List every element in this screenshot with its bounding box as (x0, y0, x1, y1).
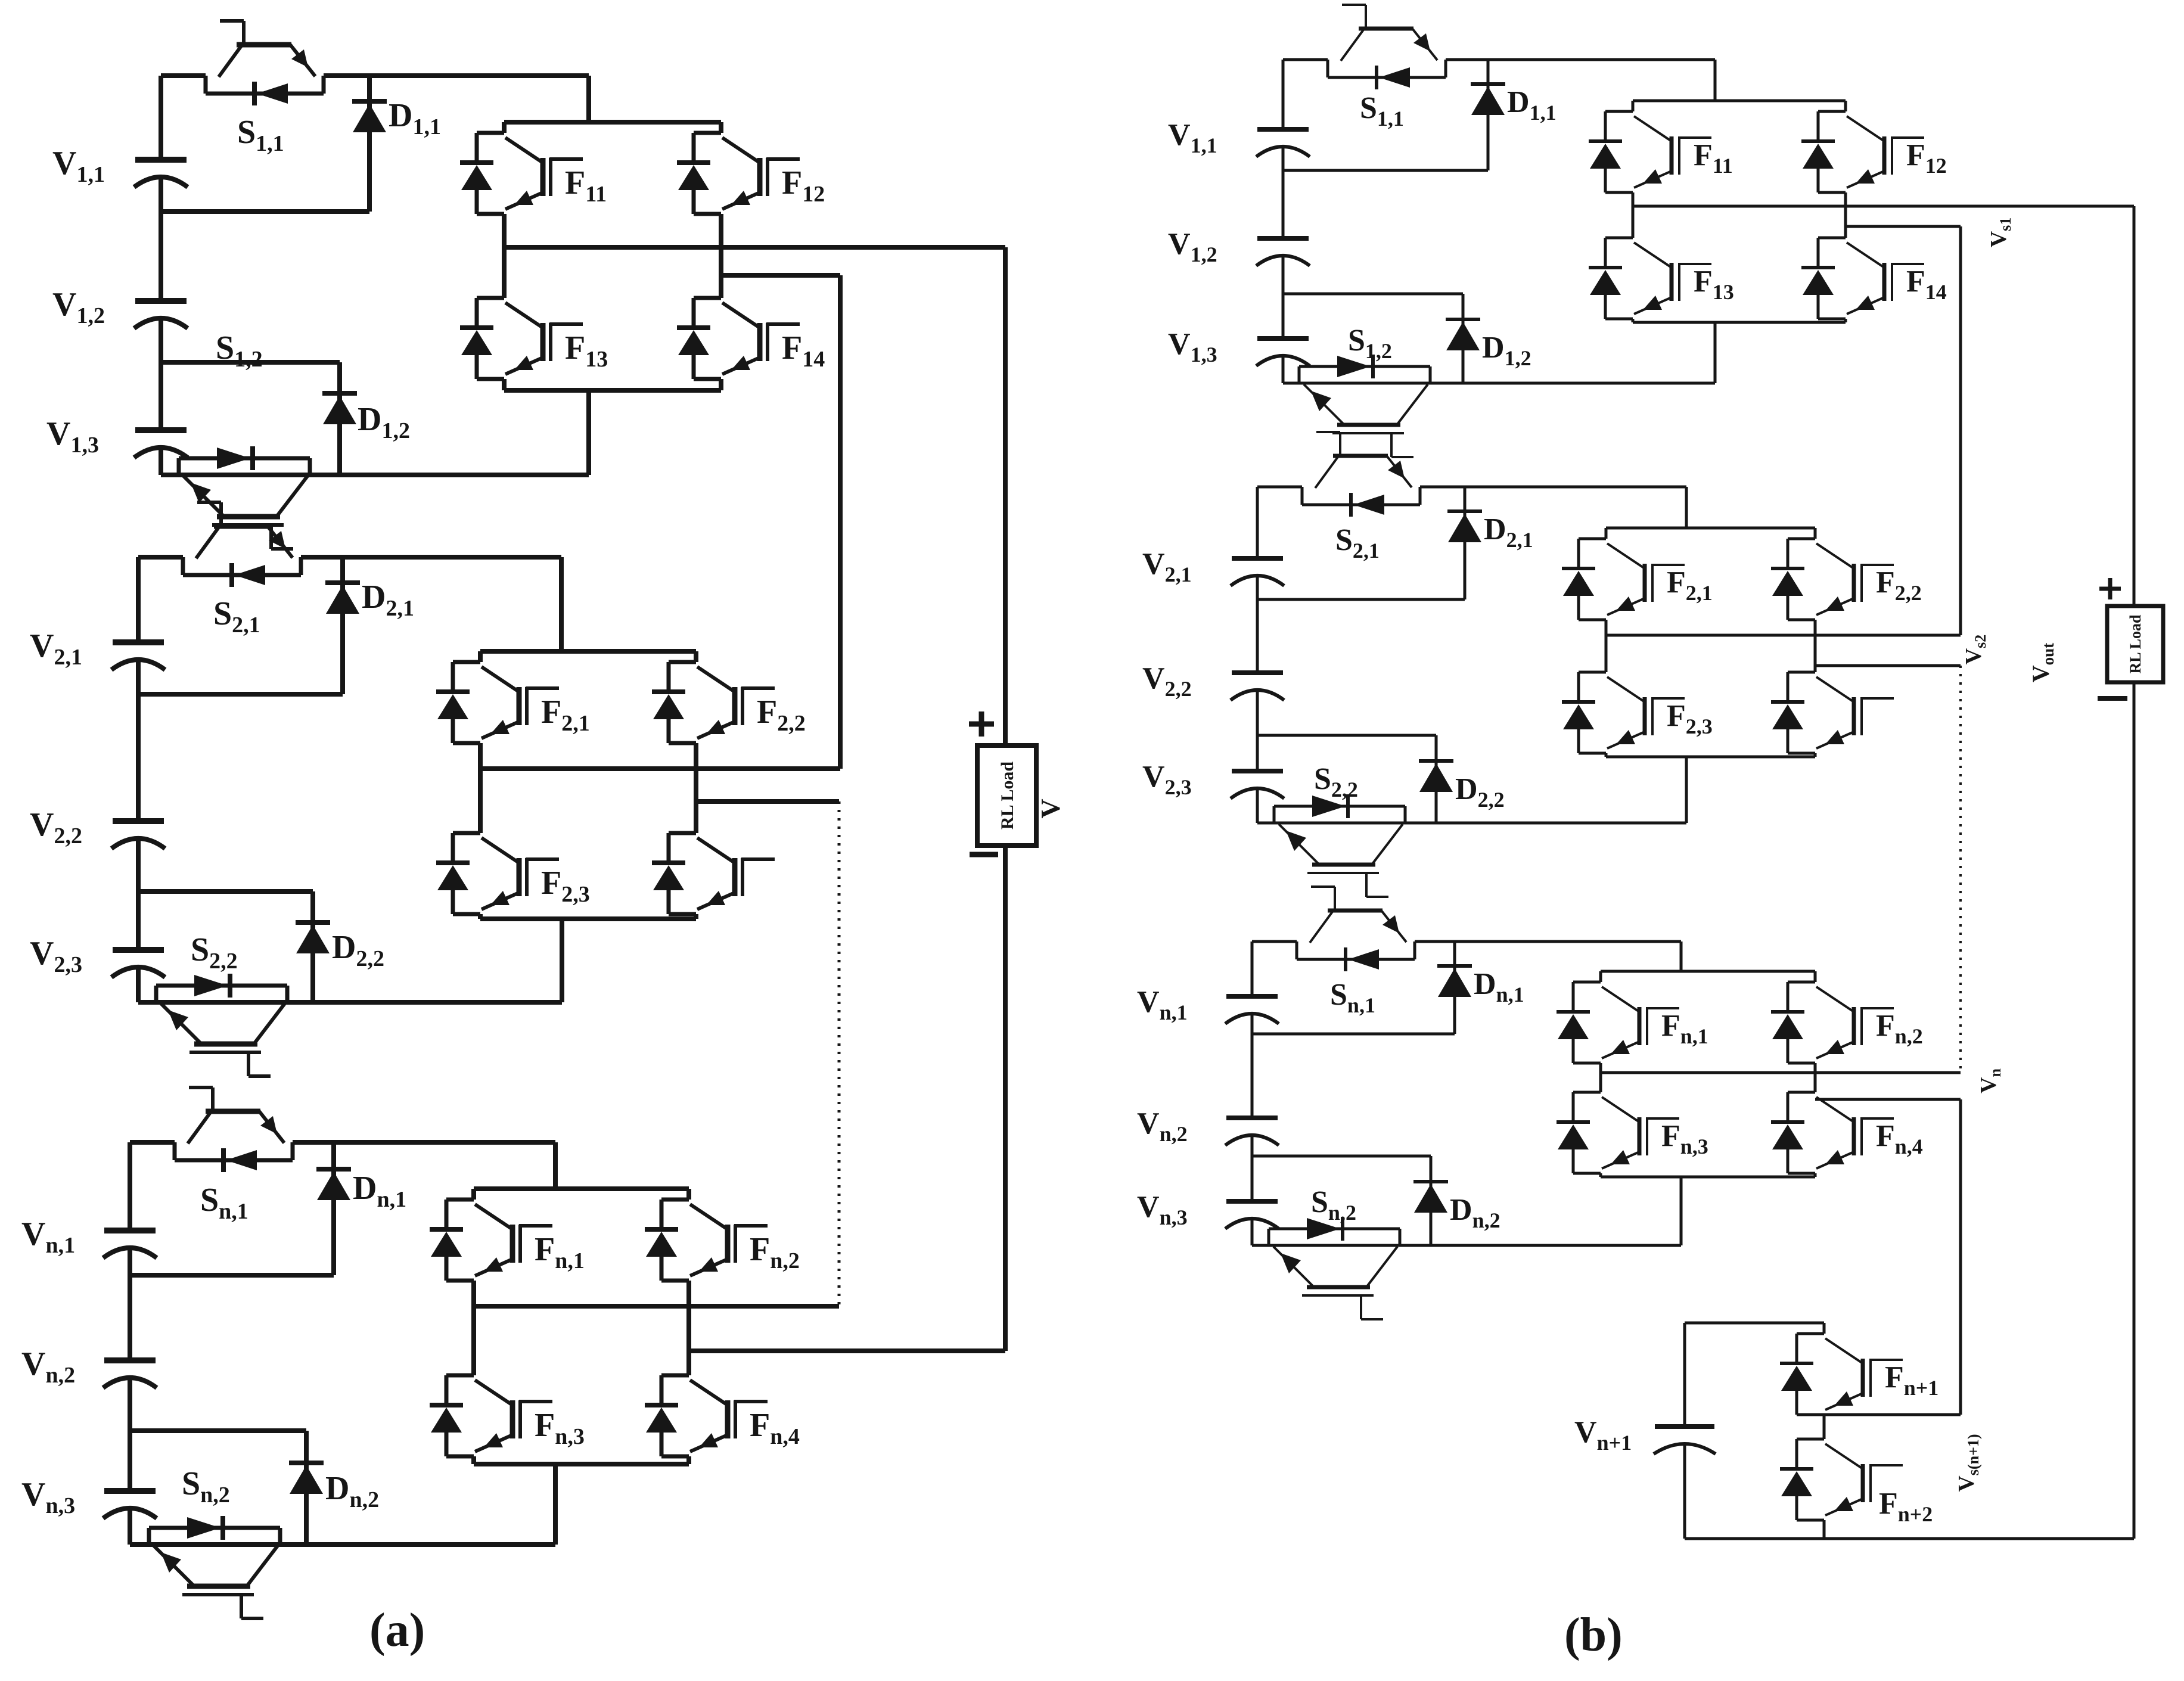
wire: load bottom feeder (1003, 846, 1008, 1351)
svg-text:(b): (b) (1564, 1609, 1623, 1661)
diode Dn,1 (331, 1142, 336, 1275)
wire: load-b top feeder (2133, 206, 2136, 606)
diode D1,2 (b) (1462, 294, 1465, 383)
wire: bridge-2 bottom rail (480, 916, 696, 921)
wire: S1,1 output to bridge feed (b) (1446, 58, 1715, 61)
wire: Sn,2 output row (b) (1252, 1244, 1681, 1247)
RL Load box (b) (2107, 606, 2163, 682)
diode D1,1 (367, 76, 372, 212)
capacitor Vn+1 (1654, 1427, 1716, 1454)
wire: bridge-2b top rail (1606, 527, 1815, 530)
wire: bus to S2,1 (138, 555, 183, 560)
wire: bridge-n output A rail (meets dotted link) (474, 1304, 839, 1309)
wire: bridge-1 bottom rail (504, 388, 721, 393)
transistor Fn+2 (half-bridge) (1780, 1439, 1903, 1520)
transistor Fn,2 (IGBT cell) (645, 1200, 768, 1281)
wire: Sn,1 output to bridge feed (b) (1415, 940, 1681, 943)
node - (load-b negative) (2098, 696, 2127, 701)
transistor F14 (b) (1801, 238, 1924, 319)
wire: bridge-2 output B (696, 799, 839, 804)
capacitor V1,1 (b) (1256, 129, 1310, 157)
capacitor V2,2 (b) (1231, 673, 1284, 700)
transistor Fn+1 (half-bridge) (1780, 1334, 1903, 1415)
transistor F13 (b) (1589, 238, 1711, 319)
wire: bridge-nb left leg (1599, 971, 1602, 982)
wire: tap V1,2/V1,3 (b) (1283, 293, 1463, 296)
switch S2,1 (b) (1302, 432, 1420, 517)
transistor F2,4 (b, unlabeled) (1771, 672, 1894, 753)
wire: S2,2 output row (b) (1257, 822, 1686, 825)
wire: bridge-nb bottom rail (1601, 1176, 1815, 1179)
capacitor V2,3 (b) (1231, 771, 1284, 798)
wire: S1,2 output row (161, 473, 589, 477)
switch Sn,2 (IGBT + series diode) (149, 1516, 280, 1618)
wire: bridge-2 output A rail (480, 766, 840, 771)
diode Dn,1 (b) (1453, 942, 1456, 1034)
wire: bridge-1b bottom rail (1633, 321, 1846, 324)
capacitor V1,1 (134, 160, 188, 187)
wire: feed stub into bridge-n top rail (553, 1142, 558, 1189)
wire: bridge-1b left leg (1632, 101, 1635, 111)
switch S1,1 (b) (1328, 5, 1446, 89)
capacitor Vn,2 (b) (1225, 1118, 1279, 1145)
diode D2,2 (310, 891, 315, 1002)
diode D1,2 (337, 362, 342, 475)
wire: bridge-2 left leg (478, 651, 483, 662)
diode D2,1 (b) (1464, 487, 1467, 599)
capacitor Vn,1 (103, 1231, 157, 1258)
wire: feed stub into bridge-1 top rail (586, 76, 591, 122)
wire: series link b1-B to b2-A (1959, 226, 1962, 635)
wire: tap V1,2/V1,3 to D1,2 cathode (161, 360, 340, 365)
transistor F12 (IGBT cell) (677, 133, 800, 214)
wire: tap Vn,1/Vn,2 (b) (1252, 1033, 1455, 1036)
wire: bridge-nb output B to half-bridge mid (1815, 1098, 1961, 1101)
wire: S1,2 output row (b) (1283, 382, 1715, 385)
transistor F11 (IGBT cell) (460, 133, 583, 214)
wire: load top feeder (1003, 247, 1008, 745)
transistor F2,1 (b) (1562, 539, 1685, 620)
wire: bridge-1b top rail (1633, 100, 1846, 102)
diode Dn,2 (304, 1431, 309, 1545)
wire: bridge-nb output A rail (meets dotted link) (1601, 1071, 1961, 1074)
wire: tap V2,2/V2,3 (b) (1257, 734, 1436, 737)
wire: half-bridge mid node (1824, 1413, 1961, 1416)
svg-text:V: V (1035, 798, 1065, 818)
capacitor V2,1 (b) (1231, 558, 1284, 586)
wire: S2,2 output row (138, 1000, 562, 1005)
wire: b-module-1 capacitor bus (1282, 60, 1285, 129)
wire: bridge-2b output A rail (1606, 634, 1961, 637)
transistor Fn,3 (IGBT cell) (430, 1375, 552, 1456)
transistor F2,2 (IGBT cell) (652, 662, 775, 743)
wire: tap V2,2/V2,3 to D2,2 cathode (138, 889, 313, 894)
transistor F2,3 (IGBT cell) (436, 833, 559, 914)
capacitor V1,2 (b) (1256, 238, 1310, 266)
capacitor Vn,3 (103, 1491, 157, 1518)
wire: tap V2,1/V2,2 to D2,1 anode (138, 692, 343, 697)
svg-text:RL Load: RL Load (998, 762, 1017, 830)
wire: bridge-1 right leg (719, 122, 723, 133)
wire: bridge-2b bottom rail (1606, 756, 1815, 759)
wire: bridge-1 left leg (502, 122, 507, 133)
capacitor Vn,1 (b) (1225, 996, 1279, 1024)
wire: tap V1,1/V1,2 to D1,1 anode (161, 209, 369, 214)
wire: bus to S1,1 (b) (1283, 58, 1328, 61)
wire: feed stub bridge-2b (1685, 487, 1688, 528)
transistor Fn,4 (IGBT cell) (645, 1375, 768, 1456)
wire: tap Vn,2/Vn,3 to Dn,2 cathode (130, 1428, 306, 1433)
wire: bridge-2 right leg (694, 651, 698, 662)
wire: stub bridge-1 bottom rail to S1,2 row (586, 390, 591, 475)
switch S2,2 (b) (1274, 794, 1405, 897)
wire: S1,1 output to H-bridge feed (324, 73, 589, 78)
wire: bridge-2 top rail (480, 649, 696, 654)
wire: bus to S2,1 (b) (1257, 486, 1302, 489)
switch Sn,1 (b) (1297, 887, 1415, 971)
wire: stub bridge-nb bottom rail to Sn,2 row (1680, 1177, 1683, 1245)
svg-text:(a): (a) (369, 1604, 425, 1657)
transistor F2,4 (IGBT cell, unlabeled) (652, 833, 775, 914)
wire: bridge-1b right leg (1844, 101, 1847, 111)
transistor Fn,2 (b) (1771, 982, 1894, 1063)
wire: S2,1 output to bridge feed (b) (1420, 486, 1686, 489)
switch S1,1 (IGBT + series diode) (206, 21, 324, 105)
wire: bridge-2b left leg (1605, 528, 1608, 539)
wire: bridge-2b output B (1815, 664, 1961, 667)
transistor Fn,3 (b) (1557, 1092, 1679, 1173)
diode D2,2 (b) (1435, 735, 1438, 823)
capacitor Vn,3 (b) (1225, 1201, 1279, 1229)
wire: bridge-1b output A to load (1633, 205, 2134, 208)
wire: bridge-nb right leg (1814, 971, 1817, 982)
wire: module-n left capacitor bus (128, 1142, 132, 1231)
switch Sn,1 (IGBT + series diode) (175, 1087, 293, 1172)
wire: bus to S1,1 (161, 73, 206, 78)
capacitor V1,2 (134, 301, 188, 328)
transistor F11 (b) (1589, 111, 1711, 192)
diode Dn,2 (b) (1430, 1156, 1433, 1245)
wire: half-bridge top rail (1685, 1322, 1824, 1325)
wire: stub bridge-2 bottom rail to S2,2 row (560, 919, 564, 1002)
wire: bridge-1b output B (1846, 225, 1961, 228)
transistor F2,2 (b) (1771, 539, 1894, 620)
wire: bridge-n output B to load bottom (689, 1348, 1005, 1353)
transistor F2,3 (b) (1562, 672, 1685, 753)
wire: stub bridge-2b bottom rail to S2,2 row (1685, 757, 1688, 823)
transistor Fn,1 (IGBT cell) (430, 1200, 552, 1281)
wire: b-module-n capacitor bus (1251, 942, 1254, 996)
wire: module-2 left capacitor bus (136, 557, 141, 642)
wire: stub bridge-n bottom rail to Sn,2 row (553, 1464, 558, 1545)
switch Sn,2 (b) (1269, 1217, 1400, 1319)
switch S1,2 (b) (1299, 355, 1430, 457)
wire: tap Vn,1/Vn,2 to Dn,1 anode (130, 1273, 334, 1278)
wire: half-bridge capacitor branch (1683, 1323, 1686, 1427)
switch S2,1 (IGBT + series diode) (183, 502, 301, 587)
wire: feed stub into bridge-2 top rail (559, 557, 564, 651)
wire: bridge-1 output A to load (504, 245, 1005, 250)
wire: load-b bottom feeder (2133, 682, 2136, 1539)
wire: bridge-1 output B (721, 273, 840, 278)
wire: bus to Sn,1 (130, 1140, 175, 1145)
wire: series link bridge1-B to bridge2-A (838, 275, 843, 769)
wire: bridge-n right leg (686, 1189, 691, 1200)
wire: bridge-nb top rail (1601, 970, 1815, 973)
wire: Sn,1 output to bridge feed (293, 1140, 555, 1145)
capacitor V1,3 (b) (1256, 338, 1310, 366)
node + (load-b positive) (2099, 587, 2121, 591)
switch S2,2 (IGBT + series diode) (156, 974, 287, 1076)
wire: module-1 left capacitor bus (159, 76, 163, 160)
wire: tap V2,1/V2,2 (b) (1257, 598, 1465, 601)
capacitor V2,1 (111, 642, 165, 670)
wire: tap V1,1/V1,2 (b) (1283, 169, 1488, 172)
capacitor V2,2 (111, 821, 165, 849)
wire: dotted continuation to module n (838, 801, 841, 1306)
transistor Fn,1 (b) (1557, 982, 1679, 1063)
wire: bus to Sn,1 (b) (1252, 940, 1297, 943)
wire: feed stub bridge-1b (1714, 60, 1717, 101)
transistor F12 (b) (1801, 111, 1924, 192)
wire: half-bridge bottom rail to load (1685, 1537, 2134, 1540)
wire: Sn,2 output row (130, 1542, 555, 1547)
node + (load positive) (969, 722, 994, 727)
wire: bridge-n top rail (474, 1186, 689, 1191)
wire: stub bridge-1b bottom rail to S1,2 row (1714, 322, 1717, 383)
wire: bridge-2b right leg (1814, 528, 1817, 539)
wire: half-bridge leg (1823, 1323, 1826, 1334)
transistor F13 (IGBT cell) (460, 298, 583, 379)
diode D2,1 (340, 557, 345, 694)
transistor F14 (IGBT cell) (677, 298, 800, 379)
wire: feed stub bridge-nb (1680, 942, 1683, 971)
wire: dotted continuation to module n (b) (1959, 666, 1962, 1073)
switch S1,2 (IGBT + series diode) (179, 446, 310, 549)
wire: bridge-1 top rail (504, 120, 721, 125)
wire: S2,1 output to bridge feed (301, 555, 561, 560)
capacitor Vn,2 (103, 1360, 157, 1388)
node - (load negative) (970, 852, 998, 857)
wire: tap Vn,2/Vn,3 (b) (1252, 1155, 1431, 1158)
capacitor V1,3 (134, 430, 188, 458)
wire: bridge-n bottom rail (474, 1462, 689, 1466)
diode D1,1 (b) (1487, 60, 1490, 170)
capacitor V2,3 (111, 950, 165, 977)
wire: bridge-n left leg (471, 1189, 476, 1200)
wire: b-module-2 capacitor bus (1256, 487, 1259, 558)
svg-text:RL Load: RL Load (2127, 614, 2144, 674)
RL Load box (977, 745, 1036, 846)
transistor Fn,4 (b) (1771, 1092, 1894, 1173)
transistor F2,1 (IGBT cell) (436, 662, 559, 743)
